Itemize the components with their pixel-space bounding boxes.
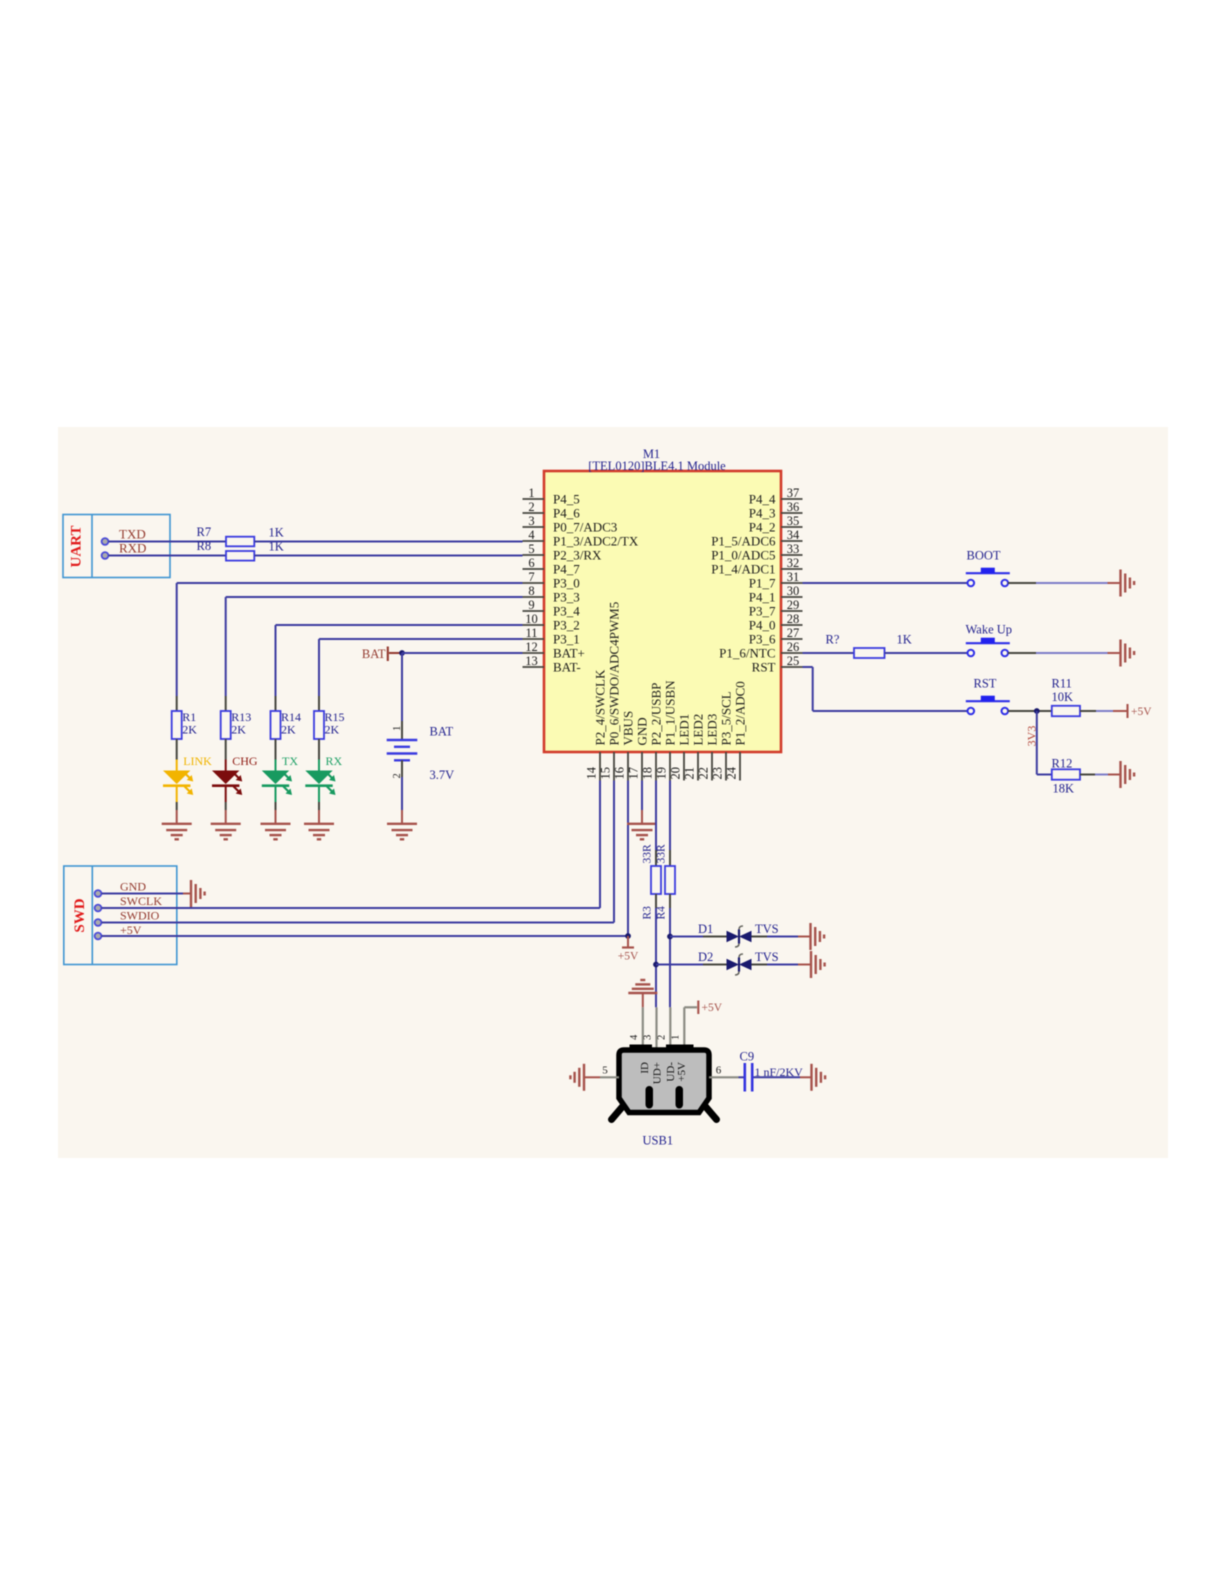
IC M1 pin 23 (P3_5/SCL) [711, 691, 734, 780]
IC M1 pin 24 (P1_2/ADC0) [725, 681, 748, 780]
diode D2 TVS [698, 950, 779, 975]
resistor R? 1K [826, 633, 912, 659]
node BAT+ junction [399, 650, 405, 656]
svg-text:R7: R7 [197, 525, 212, 539]
IC M1 pin 35 (P4_2) [749, 514, 803, 534]
svg-text:28: 28 [787, 612, 800, 626]
power port +5V below VBUS [618, 936, 639, 963]
power port +5V at R11 [1128, 704, 1153, 718]
wire R11 to +5V [1080, 710, 1127, 712]
ground below LED CHG [211, 810, 241, 839]
svg-text:SWDIO: SWDIO [120, 909, 160, 923]
svg-text:VBUS: VBUS [621, 711, 636, 746]
svg-text:P3_5/SCL: P3_5/SCL [719, 691, 734, 745]
svg-text:UD-: UD- [665, 1062, 677, 1082]
wire pin to R14 [276, 625, 523, 696]
node +5V junction [625, 933, 631, 939]
svg-text:R?: R? [826, 633, 840, 647]
svg-text:LED2: LED2 [691, 714, 706, 746]
svg-text:RST: RST [752, 659, 776, 674]
svg-text:2: 2 [528, 500, 534, 514]
svg-text:RX: RX [326, 754, 343, 768]
svg-text:5: 5 [602, 1065, 608, 1077]
IC M1 pin 7 (P3_0) [523, 570, 580, 590]
wire pin to R1 [177, 583, 523, 696]
wire D1 to ground [752, 936, 811, 938]
svg-text:R8: R8 [197, 539, 212, 553]
svg-text:UART: UART [69, 526, 85, 568]
svg-text:P2_4/SWCLK: P2_4/SWCLK [593, 669, 608, 745]
resistor R4 33R [656, 844, 676, 920]
wire pin to R13 [226, 597, 523, 696]
ground below LED LINK [162, 810, 192, 839]
IC M1 pin 15 (P0_6/SWDO/ADC4PWM5) [599, 602, 622, 781]
svg-text:24: 24 [725, 766, 739, 779]
svg-text:4: 4 [528, 528, 535, 542]
svg-text:31: 31 [787, 570, 800, 584]
svg-text:+5V: +5V [1131, 706, 1152, 718]
wire BOOT to ground [1008, 582, 1120, 584]
svg-text:P0_7/ADC3: P0_7/ADC3 [553, 519, 617, 534]
IC M1 pin 30 (P4_1) [749, 584, 803, 604]
IC M1 pin 16 (VBUS) [613, 711, 636, 781]
USB pin3 lead [643, 1007, 657, 1050]
svg-text:P1_1/USBN: P1_1/USBN [663, 680, 678, 746]
wire pin31 to BOOT [803, 582, 968, 584]
svg-text:P1_0/ADC5: P1_0/ADC5 [711, 547, 775, 562]
resistor R7 [197, 525, 284, 546]
wire to D1 [670, 936, 727, 938]
svg-text:29: 29 [787, 598, 800, 612]
svg-text:P4_5: P4_5 [553, 491, 580, 506]
svg-text:9: 9 [528, 598, 534, 612]
resistor R3 33R [642, 844, 662, 920]
USB pin2 lead [657, 1007, 671, 1050]
svg-text:SWD: SWD [72, 898, 88, 932]
IC M1 pin 32 (P1_4/ADC1) [711, 556, 802, 576]
svg-text:LED3: LED3 [705, 714, 720, 746]
svg-text:2K: 2K [281, 723, 296, 737]
wire TXD to R7 [109, 541, 227, 543]
USB pin4 lead [629, 1007, 643, 1050]
resistor R12 18K [1052, 757, 1081, 796]
svg-text:1K: 1K [897, 633, 912, 647]
IC M1 pin 4 (P1_3/ADC2/TX) [523, 528, 639, 548]
svg-text:10: 10 [525, 612, 538, 626]
LED CHG [212, 739, 258, 810]
svg-text:R3: R3 [642, 906, 654, 920]
SWD pin SWDIO [95, 909, 160, 926]
svg-text:12: 12 [525, 640, 538, 654]
svg-text:14: 14 [585, 766, 599, 779]
IC M1 pin 1 (P4_5) [523, 486, 580, 506]
svg-text:P1_3/ADC2/TX: P1_3/ADC2/TX [553, 533, 639, 548]
wire pin26 to R? [803, 652, 855, 654]
wire R7 to pin4 [255, 541, 523, 543]
schematic sheet background [58, 427, 1168, 1158]
wire to D2 [656, 964, 727, 966]
wire R? to WakeUp [885, 652, 968, 654]
SWD pin SWCLK [95, 894, 163, 911]
svg-text:13: 13 [525, 654, 538, 668]
resistor R11 10K [1052, 677, 1081, 717]
svg-text:P3_4: P3_4 [553, 603, 580, 618]
ground at R12 [1121, 761, 1135, 788]
svg-text:LINK: LINK [183, 754, 212, 768]
svg-text:33R: 33R [642, 844, 654, 864]
ground at USB pin5 [570, 1064, 584, 1091]
ground at D2 [811, 951, 825, 978]
svg-text:3V3: 3V3 [1025, 726, 1039, 747]
svg-text:32: 32 [787, 556, 800, 570]
LED LINK [163, 739, 212, 810]
svg-text:Wake Up: Wake Up [966, 623, 1013, 637]
resistor R8 [197, 539, 284, 561]
IC M1 pin 28 (P4_0) [749, 612, 803, 632]
net label 3V3 [1025, 726, 1039, 747]
wire WakeUp to ground [1008, 652, 1120, 654]
resistor R1 2K [172, 696, 198, 739]
IC M1 pin 12 (BAT+) [523, 640, 585, 660]
wire R8 to pin5 [255, 555, 523, 557]
ground at SWD GND [191, 880, 205, 907]
resistor R14 2K [271, 696, 302, 739]
svg-text:P1_7: P1_7 [749, 575, 776, 590]
svg-text:R12: R12 [1052, 757, 1073, 771]
connector SWD box [64, 866, 177, 965]
wire BAT+ to pin12 [402, 652, 523, 654]
IC M1 pin 11 (P3_1) [523, 626, 580, 646]
svg-text:P1_2/ADC0: P1_2/ADC0 [733, 681, 748, 745]
IC M1 pin 10 (P3_2) [523, 612, 580, 632]
ground below pin17 [627, 824, 657, 840]
IC M1 pin 17 (GND) [627, 717, 650, 780]
svg-text:D2: D2 [698, 950, 713, 964]
SWD pin GND [95, 880, 147, 897]
SWD title [72, 898, 88, 932]
IC M1 pin 20 (LED1) [669, 714, 692, 781]
svg-text:34: 34 [787, 528, 800, 542]
svg-text:P0_6/SWDO/ADC4PWM5: P0_6/SWDO/ADC4PWM5 [607, 602, 622, 746]
svg-text:1: 1 [392, 726, 403, 731]
IC M1 pin 31 (P1_7) [749, 570, 803, 590]
svg-text:17: 17 [627, 767, 641, 780]
IC M1 pin 26 (P1_6/NTC) [719, 640, 802, 660]
UART pin TXD [102, 527, 146, 545]
svg-text:20: 20 [669, 767, 683, 780]
svg-text:TVS: TVS [755, 922, 779, 936]
LED TX [262, 739, 299, 810]
ground at BOOT [1121, 570, 1135, 597]
svg-text:25: 25 [787, 654, 800, 668]
svg-text:5: 5 [528, 542, 534, 556]
svg-text:P4_1: P4_1 [749, 589, 776, 604]
svg-text:2K: 2K [325, 723, 340, 737]
svg-text:10K: 10K [1052, 690, 1074, 704]
svg-text:BOOT: BOOT [967, 549, 1001, 563]
wire RXD to R8 [109, 555, 227, 557]
diode D1 TVS [698, 922, 779, 947]
svg-text:UD+: UD+ [652, 1062, 664, 1084]
wire C9 to ground [754, 1076, 812, 1078]
svg-text:TX: TX [282, 754, 298, 768]
wire SWCLK to pin14 [102, 781, 601, 909]
svg-text:P4_0: P4_0 [749, 617, 776, 632]
svg-text:+5V: +5V [618, 951, 639, 963]
IC M1 pin 18 (P2_2/USBP) [641, 683, 664, 781]
svg-text:P1_5/ADC6: P1_5/ADC6 [711, 533, 776, 548]
svg-text:2K: 2K [231, 723, 246, 737]
svg-text:P3_1: P3_1 [553, 631, 580, 646]
svg-text:P4_7: P4_7 [553, 561, 580, 576]
wire battery to ground [401, 777, 403, 824]
UART title [69, 526, 85, 568]
node RST divider junction [1034, 708, 1040, 714]
svg-text:BAT-: BAT- [553, 659, 581, 674]
node D1 junction [667, 934, 673, 940]
IC M1 pin 25 (RST) [752, 654, 803, 674]
svg-text:36: 36 [787, 500, 800, 514]
svg-text:BAT: BAT [362, 647, 386, 661]
connector UART box [63, 515, 170, 578]
IC M1 pin 22 (LED3) [697, 714, 720, 781]
svg-text:3: 3 [528, 514, 534, 528]
svg-text:1K: 1K [269, 526, 284, 540]
wire R12 to ground [1080, 774, 1120, 776]
svg-text:15: 15 [599, 767, 613, 780]
ground below LED TX [261, 810, 291, 839]
svg-text:35: 35 [787, 514, 800, 528]
battery BAT 3.7V [387, 721, 454, 782]
button Wake Up [966, 623, 1013, 657]
svg-text:+5V: +5V [120, 923, 142, 937]
svg-text:D1: D1 [698, 922, 713, 936]
IC M1 pin 5 (P2_3/RX) [523, 542, 603, 562]
USB pin1 lead [670, 1007, 684, 1050]
svg-text:30: 30 [787, 584, 800, 598]
IC M1 pin 9 (P3_4) [523, 598, 581, 618]
USB pin6 wire [709, 1065, 744, 1078]
wire SWD GND [102, 893, 192, 895]
svg-text:R11: R11 [1052, 677, 1072, 691]
button RST [966, 677, 1010, 715]
svg-text:3: 3 [643, 1035, 654, 1040]
svg-text:+5V: +5V [702, 1002, 723, 1014]
wire RST to R11 [1008, 710, 1052, 712]
capacitor C9 1nF/2KV [740, 1050, 804, 1092]
svg-text:P4_3: P4_3 [749, 505, 776, 520]
resistor R15 2K [314, 696, 345, 739]
IC M1 pin 29 (P3_7) [749, 598, 803, 618]
USB pin5 wire [585, 1065, 620, 1078]
ground at C9 [812, 1064, 826, 1091]
IC M1 pin 36 (P4_3) [749, 500, 803, 520]
svg-text:3.7V: 3.7V [430, 768, 455, 782]
svg-text:P3_6: P3_6 [749, 631, 776, 646]
svg-text:P3_0: P3_0 [553, 575, 580, 590]
UART pin RXD [102, 541, 147, 559]
svg-text:C9: C9 [740, 1050, 755, 1064]
svg-text:11: 11 [525, 626, 537, 640]
wire USB pin1 to +5V [684, 1006, 697, 1008]
svg-text:RST: RST [974, 677, 997, 691]
svg-text:P3_2: P3_2 [553, 617, 580, 632]
IC M1 pin 6 (P4_7) [523, 556, 581, 576]
svg-text:BAT+: BAT+ [553, 645, 585, 660]
svg-text:P1_6/NTC: P1_6/NTC [719, 645, 775, 660]
svg-text:37: 37 [787, 486, 800, 500]
svg-text:LED1: LED1 [677, 714, 692, 746]
power port BAT [362, 647, 400, 662]
svg-text:16: 16 [613, 767, 627, 780]
IC M1 pin 21 (LED2) [683, 714, 706, 781]
USB1 reference label [643, 1134, 674, 1148]
svg-text:19: 19 [655, 767, 669, 780]
power port +5V at USB [698, 1001, 722, 1015]
wire +5V net [102, 781, 629, 937]
IC M1 pin 34 (P1_5/ADC6) [711, 528, 802, 548]
wire R3 down to USB pin3 [655, 894, 657, 1007]
ground above USB pin4 [628, 980, 657, 1007]
svg-text:GND: GND [120, 880, 146, 894]
IC M1 value label [588, 459, 726, 473]
wire pin17 GND down [641, 781, 643, 825]
ground at D1 [811, 923, 825, 950]
button BOOT [966, 549, 1010, 587]
wire pin18 to R3 [655, 781, 657, 867]
svg-text:P1_4/ADC1: P1_4/ADC1 [711, 561, 775, 576]
IC M1 reference designator [643, 447, 660, 461]
SWD pin +5V [95, 923, 142, 940]
IC M1 pin 3 (P0_7/ADC3) [523, 514, 618, 534]
svg-text:21: 21 [683, 767, 697, 780]
svg-text:+5V: +5V [676, 1062, 688, 1082]
node D2 junction [653, 962, 659, 968]
svg-text:7: 7 [528, 570, 534, 584]
svg-text:P3_3: P3_3 [553, 589, 580, 604]
IC M1 pin 14 (P2_4/SWCLK) [585, 669, 608, 780]
svg-text:P4_2: P4_2 [749, 519, 776, 534]
svg-text:ID: ID [639, 1062, 651, 1074]
svg-text:22: 22 [697, 767, 711, 780]
svg-text:2K: 2K [182, 723, 197, 737]
IC M1 pin 2 (P4_6) [523, 500, 581, 520]
svg-text:P3_7: P3_7 [749, 603, 776, 618]
svg-text:P4_6: P4_6 [553, 505, 580, 520]
svg-text:TXD: TXD [119, 527, 146, 542]
svg-text:GND: GND [635, 717, 650, 745]
svg-text:1: 1 [528, 486, 534, 500]
IC M1 pin 13 (BAT-) [523, 654, 581, 674]
ground below battery [387, 824, 417, 840]
svg-text:18K: 18K [1053, 782, 1075, 796]
svg-text:33: 33 [787, 542, 800, 556]
svg-text:RXD: RXD [119, 541, 146, 556]
svg-text:4: 4 [629, 1034, 640, 1040]
svg-text:6: 6 [716, 1065, 722, 1077]
IC M1 pin 27 (P3_6) [749, 626, 803, 646]
svg-text:1: 1 [670, 1035, 681, 1040]
LED RX [305, 739, 342, 810]
wire pin25 RST [803, 667, 968, 711]
ground at WakeUp [1121, 640, 1135, 667]
wire BAT+ down to battery [401, 653, 403, 721]
svg-text:18: 18 [641, 767, 655, 780]
wire D2 to ground [752, 964, 812, 966]
svg-text:P2_2/USBP: P2_2/USBP [649, 683, 664, 746]
svg-text:R4: R4 [656, 906, 668, 920]
svg-text:SWCLK: SWCLK [120, 894, 162, 908]
svg-text:26: 26 [787, 640, 800, 654]
svg-text:8: 8 [528, 584, 534, 598]
svg-text:P2_3/RX: P2_3/RX [553, 547, 602, 562]
connector USB1 mini-USB [612, 1045, 717, 1120]
IC M1 pin 33 (P1_0/ADC5) [711, 542, 802, 562]
IC M1 pin 8 (P3_3) [523, 584, 580, 604]
svg-text:6: 6 [528, 556, 534, 570]
wire pin19 to R4 [669, 781, 671, 867]
svg-text:BAT: BAT [430, 725, 454, 739]
svg-text:TVS: TVS [755, 950, 779, 964]
svg-text:CHG: CHG [232, 754, 258, 768]
svg-text:33R: 33R [656, 844, 668, 864]
svg-text:[TEL0120]BLE4.1 Module: [TEL0120]BLE4.1 Module [588, 459, 726, 473]
ground below LED RX [304, 810, 334, 839]
svg-text:USB1: USB1 [643, 1134, 674, 1148]
svg-text:P4_4: P4_4 [749, 491, 776, 506]
wire 3V3 net [1037, 711, 1052, 775]
IC M1 pin 37 (P4_4) [749, 486, 803, 506]
IC M1 [TEL0120]BLE4.1 Module body [544, 471, 781, 752]
resistor R13 2K [221, 696, 252, 739]
wire SWDIO to pin15 [102, 781, 615, 923]
svg-text:23: 23 [711, 767, 725, 780]
IC M1 pin 19 (P1_1/USBN) [655, 680, 678, 781]
svg-text:2: 2 [657, 1035, 668, 1040]
wire pin to R15 [319, 639, 523, 696]
svg-text:27: 27 [787, 626, 800, 640]
wire R4 down to USB pin2 [669, 894, 671, 1007]
